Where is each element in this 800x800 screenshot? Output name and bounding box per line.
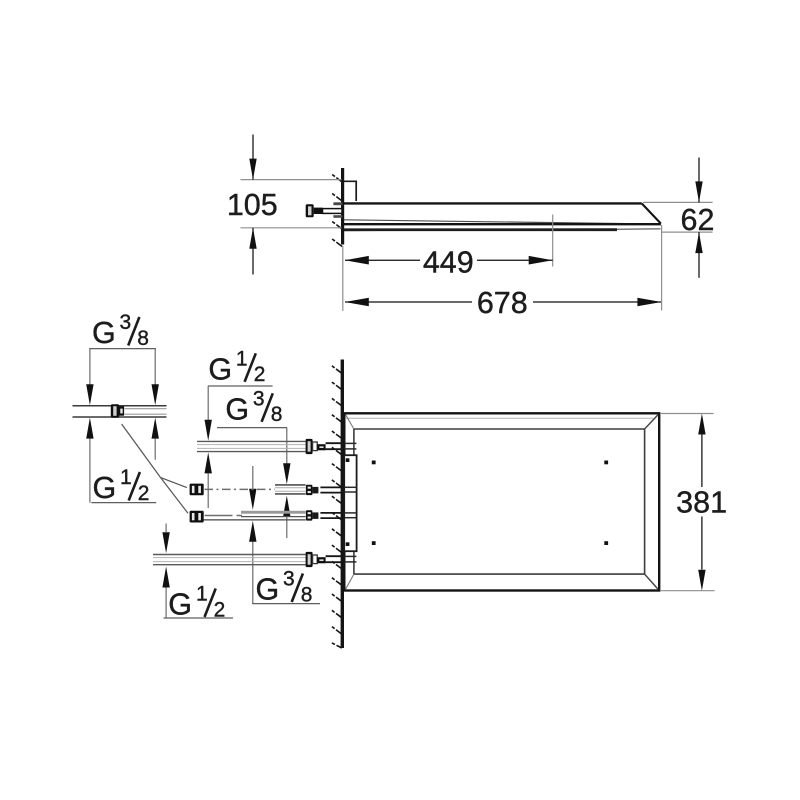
dimension 62 line and arrows <box>698 158 700 203</box>
svg-text:1: 1 <box>196 583 208 606</box>
mounting bracket on wall <box>344 181 356 201</box>
svg-text:8: 8 <box>271 403 283 426</box>
label G1/2 left bracket arrows <box>86 418 93 439</box>
leader lines from detail pipe to fittings <box>122 424 188 513</box>
label G3/8 middle <box>225 387 282 426</box>
wall (plan view) <box>341 360 344 649</box>
dimension 678 line and arrows <box>345 301 472 303</box>
panel inner frame <box>354 429 645 574</box>
svg-text:2: 2 <box>138 482 150 505</box>
label G1/2 left <box>93 466 150 505</box>
svg-text:G: G <box>225 392 249 426</box>
shower panel bottom edge <box>344 223 661 225</box>
svg-text:G: G <box>93 471 117 505</box>
label G3/8 top-left <box>92 311 149 350</box>
detail pipe fitting collar <box>119 406 124 415</box>
row3 grey pipe band <box>241 511 306 514</box>
svg-text:449: 449 <box>423 245 474 279</box>
label G3/8 bottom <box>256 568 313 607</box>
row2 bolt tip behind wall <box>345 486 357 488</box>
row4 wall fitting <box>306 552 313 567</box>
wall (side view) <box>341 168 344 245</box>
row4 bolt tip behind wall <box>345 555 357 557</box>
shower panel right bevel <box>642 204 661 224</box>
CONNECTIONS-GROUP <box>73 311 321 622</box>
svg-text:8: 8 <box>301 583 313 606</box>
shower panel top edge <box>344 202 642 204</box>
row3 centre line dashes <box>205 515 233 517</box>
svg-text:2: 2 <box>254 363 266 386</box>
wall hatching (side view) <box>332 175 342 247</box>
dimension 449 extension line <box>552 215 554 267</box>
dimension 105 line and arrows <box>252 135 254 180</box>
svg-text:3: 3 <box>253 387 265 410</box>
mounting plate corner ticks <box>346 458 350 462</box>
svg-text:62: 62 <box>681 203 715 237</box>
shower panel inner crease line <box>344 220 645 224</box>
mounting plate <box>344 455 356 551</box>
BOTTOM-VIEW-GROUP <box>332 360 727 649</box>
row3 wall fitting <box>306 510 313 520</box>
panel screw holes <box>372 461 376 465</box>
wall hatching (plan view) <box>332 366 342 648</box>
row3 bolt tip behind wall <box>345 512 357 514</box>
svg-text:G: G <box>92 316 116 350</box>
svg-text:1: 1 <box>236 347 248 370</box>
panel corner bevel diagonals <box>346 415 659 590</box>
label G3/8 top-left bracket <box>89 348 156 350</box>
label G1/2 bottom bracket <box>164 617 234 619</box>
row1 bolt tip behind wall <box>345 442 357 444</box>
dimension 381 extension lines <box>660 413 714 415</box>
dimension 381 line and arrows <box>701 435 703 488</box>
row2 left fitting <box>190 484 204 496</box>
svg-text:105: 105 <box>227 188 278 222</box>
panel faint bevel line top <box>346 417 653 419</box>
detail pipe fitting head <box>111 404 119 418</box>
ROWS-GROUP <box>153 439 356 567</box>
row2 centre dash-dot line <box>205 488 276 490</box>
wall extension line down to dimension lines <box>342 246 344 311</box>
label G1/2 middle <box>208 347 265 386</box>
detail pipe bore <box>125 408 167 410</box>
row2 wall fitting <box>306 485 313 495</box>
svg-text:3: 3 <box>120 311 132 334</box>
svg-text:678: 678 <box>477 286 528 320</box>
label G1/2 bottom <box>168 583 225 622</box>
row1 wall fitting <box>306 439 313 454</box>
row2 pipe <box>275 484 306 486</box>
svg-text:3: 3 <box>283 568 295 591</box>
row4 supply pipe <box>153 554 306 556</box>
svg-text:G: G <box>168 588 192 622</box>
label G1/2 middle bracket <box>208 385 273 387</box>
dimension 449 line and arrows <box>345 259 420 261</box>
label G3/8 middle bracket <box>217 427 287 429</box>
wall plate stub lower <box>333 215 342 218</box>
row1 supply pipe <box>197 440 306 442</box>
fixing bolt (side view) <box>306 204 314 217</box>
wall plate stub upper <box>333 202 342 205</box>
label G3/8 bottom bracket <box>252 603 320 605</box>
svg-text:8: 8 <box>137 327 149 350</box>
shower panel underside (tapered) <box>344 228 617 231</box>
row3 left fitting <box>190 511 204 523</box>
dimension 678 extension line <box>661 225 663 311</box>
svg-text:1: 1 <box>120 466 132 489</box>
dimension 105 extension lines <box>241 179 342 181</box>
svg-text:381: 381 <box>676 486 727 520</box>
TOP-VIEW-GROUP <box>227 135 715 320</box>
shower panel (plan view) outer rectangle <box>344 413 659 590</box>
dimension 62 extension lines <box>643 201 713 203</box>
detail pipe outer walls <box>73 405 167 407</box>
svg-text:G: G <box>208 352 232 386</box>
svg-text:G: G <box>256 573 280 607</box>
